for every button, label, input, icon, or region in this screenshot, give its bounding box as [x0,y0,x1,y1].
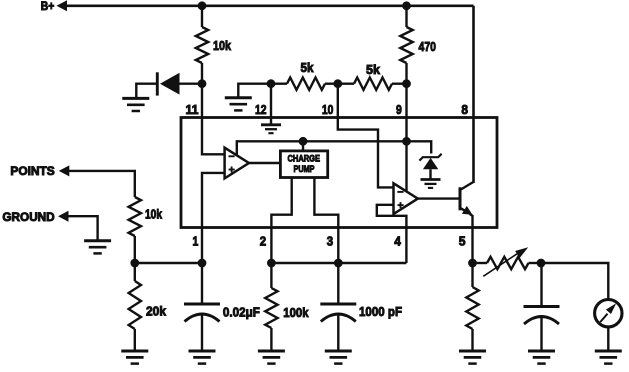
wire R5 to input node [134,236,136,263]
svg-text:12: 12 [255,102,267,117]
B+ arrow [57,0,68,11]
ground (R6) [121,350,148,353]
svg-text:10k: 10k [213,38,232,53]
node pin 9 internal junction [402,137,411,146]
node pin 11 junction [198,79,207,88]
svg-text:10k: 10k [145,207,163,222]
resistor R3 5k [287,78,325,90]
node meter junction [537,259,546,268]
GROUND arrow [58,211,69,222]
wire B+ to R1 [201,6,203,27]
svg-text:5: 5 [459,233,466,248]
resistor R1 10k [196,27,208,63]
ground (zener) [421,178,441,181]
wire pin 11 to op-amp U1 minus [202,84,225,155]
ground (diode) [122,97,149,100]
resistor R2 470 [400,27,412,63]
wire pin 9 down through internal node to U2 [405,84,407,193]
meter M1 [595,300,622,327]
resistor R8 (emitter) [471,263,473,287]
wire POINTS to R5 [69,171,135,197]
svg-text:GROUND: GROUND [2,210,55,224]
wire R4 to pin9 node [392,82,407,84]
POINTS arrow [59,165,70,176]
svg-text:1: 1 [193,233,199,248]
op-amp U2 [394,183,418,214]
wire B+ to R2 [405,6,407,27]
wire Q1 emitter to pin 5 [470,214,473,263]
IC U1 outline box [181,118,497,228]
resistor R7 100k [270,263,272,288]
svg-text:3: 3 [327,233,333,248]
node input junction [130,259,139,268]
wire pin 10 to op-amp U2 minus [338,84,394,188]
ground (M1) [595,350,622,353]
wire charge pump top stub [302,141,304,151]
resistor R6 20k [134,263,136,281]
node pin 3 junction [334,259,343,268]
ground (GROUND input) [84,239,111,242]
svg-text:PUMP: PUMP [294,164,316,175]
ground (R8) [459,350,486,353]
node pin 2 junction [267,259,276,268]
wire R3 to pin10 node [325,82,338,84]
wire meter node to meter [541,263,608,300]
wire zener to ground [429,169,431,178]
svg-text:2: 2 [260,233,266,248]
op-amp U1 [225,148,249,179]
wire charge pump to pin 3 [314,178,338,264]
svg-text:100k: 100k [283,305,309,320]
wire pin 8 / collector drop [472,6,475,183]
svg-text:10: 10 [322,102,334,117]
charge pump block [280,151,327,178]
wire pin12 node to R3 [271,82,287,84]
wire U2 output to Q1 base [418,197,459,199]
wire pin 1 to op-amp U1 plus [202,173,225,263]
node pin 9 junction [402,79,411,88]
svg-text:0.02μF: 0.02μF [223,304,260,319]
svg-text:4: 4 [394,233,401,248]
ground (pin 12 external) [225,96,252,99]
svg-text:B+: B+ [41,1,55,13]
node junction top-left [198,1,207,10]
svg-text:5k: 5k [301,60,315,75]
wire diode anode to pin11 node [179,82,202,84]
ground (C2) [325,350,352,353]
wire pins 2-3-4 rail [271,262,406,264]
wire input node rail [135,262,202,264]
ground (C1) [189,350,216,353]
svg-text:470: 470 [419,39,437,54]
node charge pump stub junction [299,137,308,146]
wire top rail [66,5,474,8]
ground (pin 12 internal) [261,123,281,126]
zener diode D2 [423,158,438,169]
wire GROUND to ground symbol [68,216,98,240]
diode D1 [160,73,180,95]
svg-text:8: 8 [461,102,468,117]
wire pin 12 down to internal ground [270,84,272,124]
wire pin12 node to external ground [238,84,271,97]
wire pin 4 to op-amp U2 plus [377,205,407,263]
ground (C3) [528,350,555,353]
node pin 12 junction [267,79,276,88]
svg-text:POINTS: POINTS [10,164,54,178]
wire diode cathode to ground [136,84,157,98]
resistor R5 10k [129,197,141,236]
wire internal supply line [237,141,431,156]
capacitor C3 [540,263,542,305]
variable resistor R9 [473,262,488,264]
wire U1 output to charge pump [249,162,281,164]
svg-text:9: 9 [396,102,402,117]
node pin 1 junction [198,259,207,268]
capacitor C2 1000pF [337,263,339,303]
svg-text:11: 11 [186,102,199,117]
wire R1 to pin 11 node [201,63,203,84]
wire pin10 node to R4 [338,82,354,84]
transistor Q1 [459,187,462,210]
wire charge pump to pin 2 [271,178,291,264]
wire R2 to pin 9 node [405,63,407,84]
resistor R4 5k [354,78,392,90]
node pin 10 junction [333,79,342,88]
svg-text:5k: 5k [366,62,381,77]
svg-text:20k: 20k [146,304,167,319]
svg-text:1000 pF: 1000 pF [359,304,402,319]
wire meter to ground [607,327,609,350]
ground (R7) [258,350,285,353]
capacitor C1 0.02uF [201,263,203,303]
svg-text:CHARGE: CHARGE [288,154,321,165]
node junction top-right [402,1,411,10]
node pin 5 junction [468,259,477,268]
